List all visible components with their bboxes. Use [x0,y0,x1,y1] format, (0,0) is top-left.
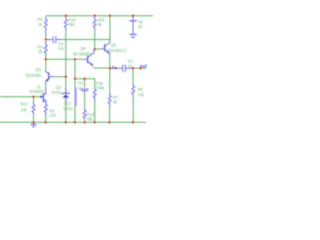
svg-text:470: 470 [50,113,57,118]
svg-text:47k: 47k [21,107,28,112]
svg-text:R23: R23 [21,102,29,107]
svg-text:p: p [111,64,115,69]
svg-text:3k6: 3k6 [68,22,75,27]
svg-text:BC550BC: BC550BC [73,51,93,56]
svg-text:1m: 1m [58,46,64,51]
svg-text:32: 32 [138,24,143,29]
svg-text:47k: 47k [138,92,145,97]
svg-text:1u: 1u [128,63,132,68]
svg-text:3k: 3k [38,22,43,27]
svg-text:Q3: Q3 [36,67,42,72]
svg-text:3k: 3k [38,49,43,54]
svg-text:out: out [140,63,147,68]
svg-text:1.12u: 1.12u [63,106,73,111]
svg-text:R8: R8 [138,87,144,92]
svg-text:BC550BC: BC550BC [26,73,42,78]
svg-text:3k: 3k [98,22,103,27]
svg-text:700k: 700k [96,86,105,91]
svg-text:BD140CC: BD140CC [107,48,127,53]
svg-text:2k: 2k [113,100,118,105]
svg-text:2N3820: 2N3820 [29,89,45,94]
svg-text:1N754: 1N754 [51,90,62,95]
svg-text:Q5: Q5 [111,42,117,47]
svg-text:45k: 45k [87,116,94,121]
